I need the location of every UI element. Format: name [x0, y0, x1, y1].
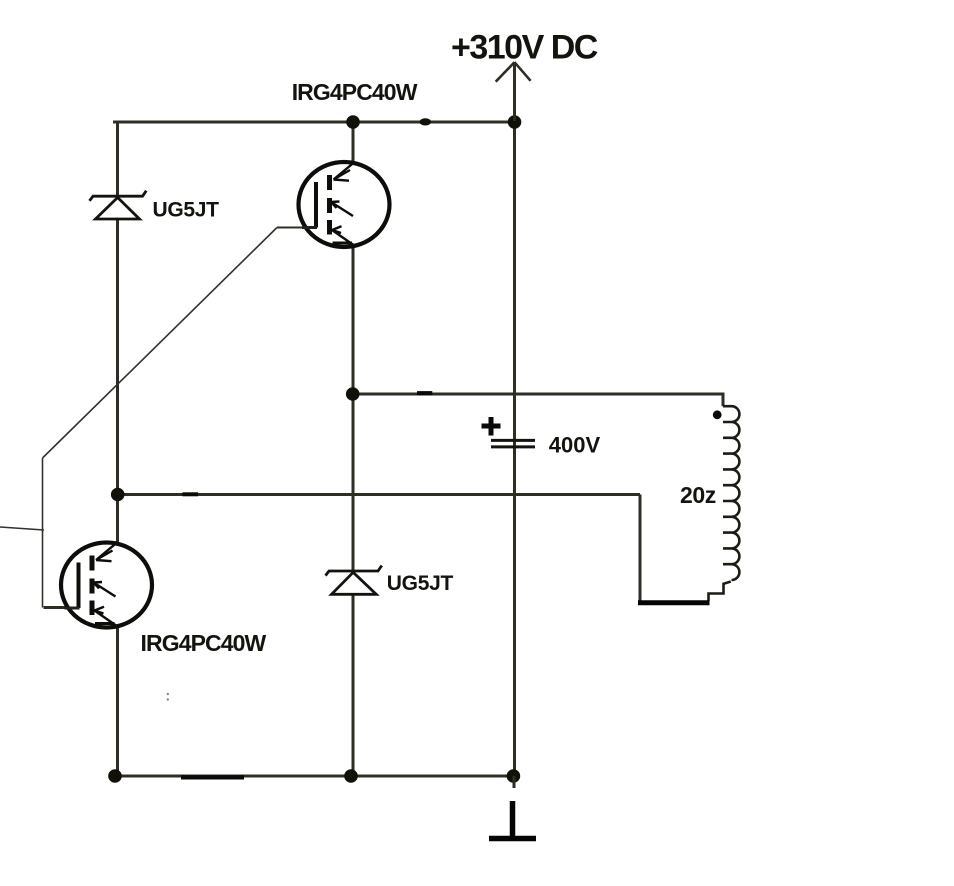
node: bottom rail ground junction: [507, 769, 521, 783]
wire: thick bottom lead of inductor: [638, 600, 710, 605]
node: top rail / Q1 collector junction: [346, 115, 360, 129]
wire: black overdrawn dash on feedback run: [183, 492, 199, 496]
ground stem (thin): [513, 776, 516, 788]
wire: long diagonal gate drive line: [43, 228, 278, 459]
capacitor C1 plates: [491, 440, 535, 447]
stray colon artifact: [167, 693, 169, 695]
node: mid junction at Q1 emitter: [346, 387, 360, 401]
wire: stub to left edge: [0, 527, 44, 530]
wire: black overdrawn dash on bottom rail: [181, 775, 244, 779]
node: left junction on feedback run: [111, 488, 125, 502]
node: bottom rail middle junction: [344, 769, 358, 783]
node: bottom rail left junction: [108, 769, 122, 783]
node: stray blob on top rail: [420, 118, 432, 125]
wire: right vertical to transformer bottom: [639, 495, 642, 602]
wire: main center vertical (+310V to ground): [513, 62, 516, 778]
wire: middle vertical branch: [352, 121, 355, 778]
svg-text:+310V DC: +310V DC: [451, 29, 598, 67]
inductor L1 phase dot: [713, 410, 722, 419]
+310V DC supply arrow: [496, 62, 531, 121]
node: top rail / +310V junction: [508, 115, 522, 129]
wire: left vertical gate drive line: [42, 458, 44, 608]
wire: black overdrawn dash on mid horizontal: [417, 391, 432, 395]
wire: staircase to thick bottom lead: [709, 582, 731, 602]
wire: top rail: [113, 121, 515, 124]
zener diode D2 UG5JT (middle): [326, 566, 382, 595]
transistor Q1 IRG4PC40W (top IGBT): [299, 162, 390, 247]
svg-text:20z: 20z: [680, 482, 716, 508]
zener diode D1 UG5JT (left): [90, 191, 147, 219]
wire: horizontal to transformer top: [353, 394, 723, 406]
wire: left vertical branch: [116, 121, 119, 778]
svg-text:UG5JT: UG5JT: [387, 572, 454, 595]
wire: horizontal feedback run: [118, 493, 641, 496]
svg-text:IRG4PC40W: IRG4PC40W: [141, 630, 267, 656]
svg-text:400V: 400V: [549, 432, 601, 457]
svg-text:UG5JT: UG5JT: [153, 199, 220, 222]
transistor Q2 IRG4PC40W (bottom IGBT): [61, 543, 152, 628]
svg-text:IRG4PC40W: IRG4PC40W: [292, 79, 418, 105]
ground symbol: [489, 801, 536, 839]
inductor L1 winding: [723, 406, 739, 580]
wire: gate lead of Q1: [277, 227, 302, 229]
wire: gate lead of Q2: [44, 606, 67, 609]
capacitor C1 plus polarity mark: [482, 417, 501, 436]
wire: bottom rail: [113, 775, 514, 778]
